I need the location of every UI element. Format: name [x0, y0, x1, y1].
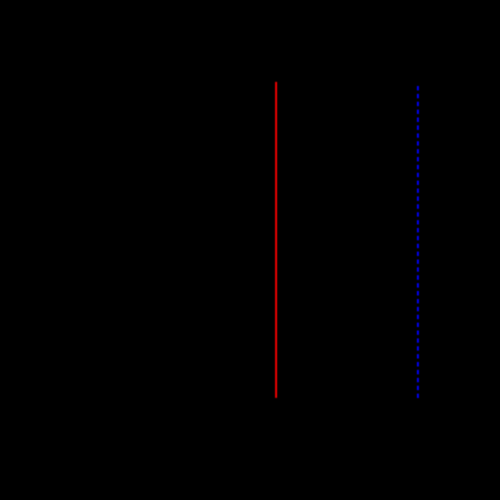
- blue dashed vertical line (mean marker): [417, 86, 419, 398]
- red solid vertical line (median marker): [275, 82, 277, 398]
